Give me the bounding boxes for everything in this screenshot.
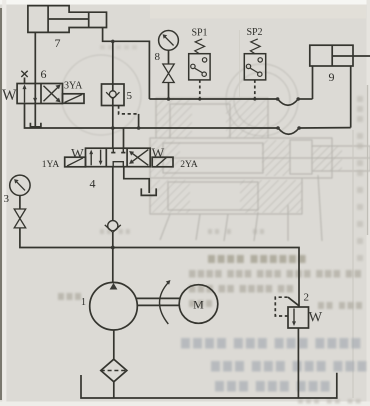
wire: A-line down to valve 4 port A [112, 128, 114, 148]
wire: check valve 5 to node on A-line [112, 106, 114, 129]
svg-text:7: 7 [55, 36, 61, 50]
label 3 [4, 193, 10, 205]
wire: gauge 3 to shutoff valve [19, 196, 21, 210]
svg-text:W: W [309, 310, 323, 326]
node: pump line junction [111, 246, 115, 250]
tank symbol under valve 4 [141, 188, 156, 195]
wire: SP1 dashed stub [199, 80, 201, 99]
blocked port marker above valve 6 [21, 71, 27, 84]
svg-text:M: M [193, 298, 204, 312]
label 8 [155, 51, 161, 63]
flexible hose on clamp line [276, 97, 300, 105]
pressure switch SP2 [244, 39, 265, 80]
label 3YA [64, 81, 83, 92]
wire: clamp line (top rail) [149, 66, 312, 99]
left solenoid of valve 4 [65, 157, 86, 167]
pilot line of relief valve 2 [275, 297, 299, 316]
node at SP1 stub [198, 97, 201, 100]
filter [101, 359, 127, 382]
solenoid of valve 6 [63, 94, 85, 104]
label 2 [304, 292, 310, 304]
wire: node down to check valve 5 [112, 41, 114, 84]
svg-text:8: 8 [155, 51, 161, 63]
electric motor M [179, 285, 218, 324]
wire: cylinder 7 right port to node above check valve 5 [103, 28, 150, 100]
pilot line of check valve 5 [119, 106, 139, 129]
node: pilot junction on B-line [137, 126, 141, 130]
label 6 [41, 67, 47, 81]
label 7 [55, 36, 61, 50]
label 9 [329, 70, 335, 84]
pressure gauge 8 [159, 31, 179, 51]
right spring of valve 4 [152, 146, 165, 161]
wire: check valve to pump node [112, 232, 114, 283]
svg-text:4: 4 [90, 177, 96, 191]
svg-text:SP2: SP2 [246, 27, 262, 38]
wire: relief valve 2 drain to tank [297, 328, 299, 398]
svg-text:1YA: 1YA [42, 160, 60, 170]
valve 4 (4/3 solenoid valve) [86, 148, 151, 167]
label 5 [127, 90, 133, 102]
node at SP2 stub [253, 97, 256, 100]
wire: pump suction to filter [113, 330, 115, 359]
pump 1 [90, 282, 138, 330]
relief valve 2 [288, 307, 309, 328]
node: junction above check valve 5 [111, 40, 115, 44]
svg-text:3YA: 3YA [64, 81, 83, 92]
wire: valve 4 port T to tank [124, 167, 149, 193]
svg-text:2: 2 [304, 292, 310, 304]
label SP1 [191, 28, 207, 39]
flexible hose on B-line [276, 126, 301, 134]
svg-text:3: 3 [4, 193, 10, 205]
pressure switch SP1 [189, 39, 210, 80]
faint machine drawing [61, 55, 370, 241]
label 1YA [42, 160, 60, 170]
wire: gauge 8 to shutoff valve [168, 50, 170, 64]
shutoff valve under gauge 8 [163, 64, 174, 83]
svg-text:W: W [2, 87, 17, 104]
wire: valve 6 left port down to A-line [25, 104, 113, 129]
bleed-through text rows (decorative) [58, 45, 366, 404]
svg-text:SP1: SP1 [191, 28, 207, 39]
drive shaft [137, 298, 181, 305]
wire: B-line down to valve 4 port B [123, 128, 125, 148]
spring of relief valve 2 [309, 310, 323, 326]
wire: shutoff valve 3 to pump line [20, 228, 113, 248]
cylinder 7 (intensifier) [28, 6, 107, 33]
spring of valve 6 [2, 87, 17, 104]
wire: filter to tank [113, 382, 115, 398]
tank symbol under valve 6 [30, 123, 41, 127]
svg-text:2YA: 2YA [180, 160, 198, 170]
pressure gauge 3 [10, 175, 30, 195]
svg-text:1: 1 [81, 297, 86, 308]
svg-text:6: 6 [41, 67, 47, 81]
label SP2 [246, 27, 262, 38]
svg-text:W: W [71, 146, 84, 161]
label 1 [81, 297, 86, 308]
right solenoid of valve 4 [152, 157, 173, 167]
label 2YA [180, 160, 198, 170]
wire: cylinder 9 right port to B-line [350, 66, 352, 128]
wire: valve 4 port P down [112, 167, 114, 221]
svg-text:5: 5 [127, 90, 133, 102]
left spring of valve 4 [71, 146, 84, 161]
node: A-line junction under check valve 5 [111, 126, 115, 130]
check valve on pump line [105, 221, 121, 232]
label 4 [90, 177, 96, 191]
tank (bottom reservoir) [81, 373, 337, 398]
wire: pump node to relief valve 2 [113, 248, 299, 308]
wire: SP2 dashed stub [254, 80, 256, 99]
svg-text:W: W [152, 146, 165, 161]
label M [193, 298, 204, 312]
shutoff valve under gauge 3 [14, 209, 26, 228]
node on clamp line at gauge 8 [167, 97, 171, 101]
check valve 5 (pilot operated) [102, 84, 125, 106]
rotation arrow [160, 280, 171, 324]
wire: A/B line to cylinder 9 right port [113, 127, 351, 129]
wire: cylinder 7 left port down through valve 6 to tank [34, 32, 36, 126]
svg-text:9: 9 [329, 70, 335, 84]
valve 6 (2/3 solenoid valve) [17, 84, 62, 104]
wire: shutoff valve to clamp line [168, 83, 170, 100]
cylinder 9 (clamp cylinder) [310, 45, 370, 66]
